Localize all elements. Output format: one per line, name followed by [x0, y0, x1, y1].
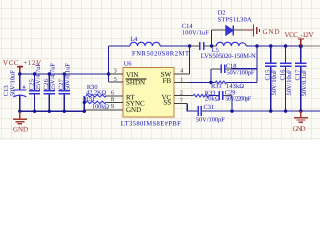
svg-text:C31: C31 — [204, 104, 215, 111]
svg-text:50V/100pF: 50V/100pF — [196, 116, 225, 123]
capacitor C29 — [219, 89, 251, 111]
pin 7 (SS) — [163, 98, 187, 107]
capacitor C17 — [295, 46, 309, 111]
pin 6 (RT) + resistor R30 — [86, 84, 135, 101]
resistor R33 on VC line — [193, 90, 220, 102]
svg-text:FNR5020S8R2MT: FNR5020S8R2MT — [132, 50, 189, 57]
junction bottom-right bus dots — [230, 109, 302, 112]
wire C14 to L5 node — [212, 45, 217, 47]
capacitor C13 (polarized) — [3, 70, 26, 111]
svg-text:4: 4 — [180, 69, 183, 75]
svg-text:VCC_-12V: VCC_-12V — [285, 31, 314, 39]
svg-text:25V/4.7uF: 25V/4.7uF — [50, 63, 57, 90]
wire SS to C31 — [187, 104, 197, 112]
svg-text:50V/2200pF: 50V/2200pF — [225, 95, 251, 102]
svg-text:GND: GND — [126, 106, 141, 114]
junction SW node dot — [188, 44, 191, 47]
junction input bus dots — [18, 72, 66, 75]
wire input bus — [20, 73, 109, 75]
capacitor C14 — [182, 23, 212, 50]
pin 9 (GND pad) — [84, 104, 141, 114]
power flag VCC_+12V — [3, 59, 41, 74]
junction output bus dots — [255, 44, 302, 48]
ground GND (left) — [13, 111, 28, 133]
svg-text:1: 1 — [180, 77, 183, 83]
capacitor C16 — [279, 46, 293, 111]
svg-text:50V/10uF: 50V/10uF — [286, 69, 293, 95]
ground (bar style, after D2) — [254, 25, 280, 37]
svg-text:50V/100pF: 50V/100pF — [226, 69, 254, 76]
capacitor C26 — [43, 63, 57, 112]
svg-text:R31: R31 — [85, 96, 96, 103]
pin 4 (SW) — [161, 46, 190, 78]
wire bottom-left ground bus — [20, 110, 86, 112]
svg-text:50V/10uF: 50V/10uF — [271, 69, 278, 95]
wire output bus — [246, 45, 302, 47]
svg-text:7: 7 — [180, 98, 183, 104]
svg-text:50V/0.1uF: 50V/0.1uF — [301, 69, 308, 96]
ground GND (right) — [293, 111, 308, 133]
power flag VCC_-12V — [285, 31, 314, 46]
svg-text:50V/0.1uF: 50V/0.1uF — [65, 63, 72, 90]
resistor R31 (143k) on FB line — [209, 81, 257, 90]
svg-text:20kΩ: 20kΩ — [205, 95, 220, 102]
wire L4 to C14 — [160, 45, 190, 47]
wire FB tap riser — [256, 46, 258, 82]
svg-text:GND: GND — [293, 125, 306, 133]
capacitor C25 — [28, 63, 42, 112]
svg-text:5: 5 — [114, 77, 117, 83]
junction bottom-left bus dots — [18, 110, 66, 113]
wire resistor ground riser — [83, 96, 85, 112]
inductor L5 — [201, 42, 256, 60]
wire diode riser — [211, 30, 213, 46]
svg-text:8: 8 — [111, 97, 114, 103]
svg-text:LT3580IMS8E#PBF: LT3580IMS8E#PBF — [121, 120, 181, 127]
IC U6 LT3580 — [121, 60, 181, 127]
svg-text:STPS1L30A: STPS1L30A — [218, 17, 252, 24]
svg-text:2: 2 — [180, 90, 183, 96]
pin 1 (FB) — [163, 77, 216, 85]
wire bottom-right ground bus — [202, 110, 320, 112]
pin 2 (VC) — [161, 90, 193, 101]
capacitor C18 — [211, 63, 257, 82]
svg-text:SS: SS — [163, 99, 171, 107]
pin 8 (SYNC) + resistor R31 (100k) — [85, 96, 145, 111]
capacitor C31 — [196, 104, 225, 123]
svg-text:FB: FB — [163, 77, 172, 85]
svg-text:100V/1uF: 100V/1uF — [182, 29, 209, 36]
svg-text:LVS505020-150M-N: LVS505020-150M-N — [201, 53, 256, 60]
svg-text:GND: GND — [13, 126, 28, 134]
capacitor C15 — [265, 46, 279, 111]
svg-text:50V/10uF: 50V/10uF — [10, 70, 17, 96]
inductor L4 — [109, 36, 189, 57]
svg-text:6: 6 — [111, 90, 114, 96]
svg-text:GND: GND — [263, 28, 280, 36]
junction diode tap dot — [210, 44, 213, 47]
svg-text:3: 3 — [114, 69, 117, 75]
svg-text:SHDN: SHDN — [126, 78, 145, 86]
wire vertical VIN riser — [108, 46, 110, 82]
svg-text:L4: L4 — [130, 36, 138, 43]
diode D2 — [218, 10, 253, 36]
svg-text:25V/4.7uF: 25V/4.7uF — [35, 63, 42, 90]
svg-text:9: 9 — [111, 104, 114, 110]
junction VIN riser dot — [107, 72, 110, 75]
pin 3 (VIN) — [109, 69, 139, 79]
wire output bus gray continuation — [302, 45, 320, 47]
svg-text:U6: U6 — [124, 60, 132, 67]
capacitor C27 — [58, 63, 72, 112]
pin 5 (SHDN) — [109, 77, 147, 86]
